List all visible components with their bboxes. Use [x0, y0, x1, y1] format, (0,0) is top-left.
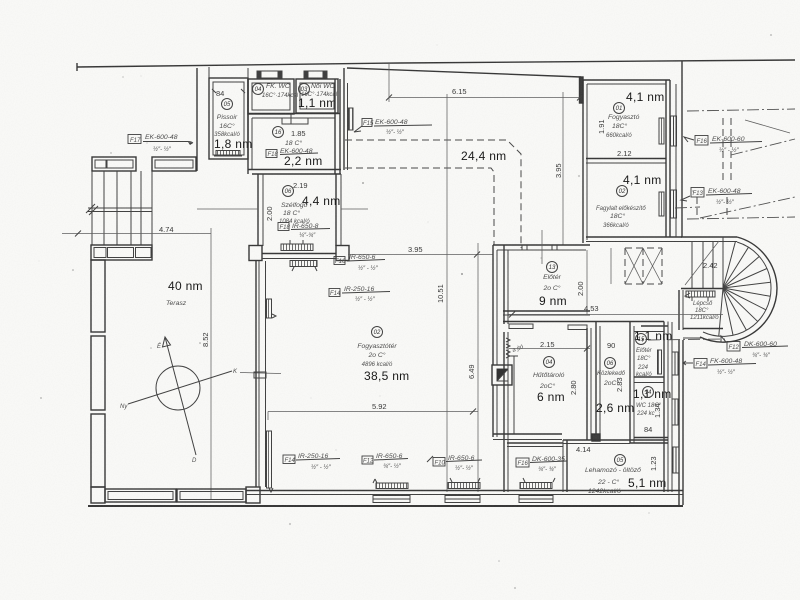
dimension 1.23 vertical	[649, 456, 658, 471]
dimension 2.12	[617, 149, 632, 158]
wall: Fogyasztoter east wall	[493, 245, 508, 492]
room label Kozlekedo	[597, 371, 626, 387]
room label 1,1 nm upper	[634, 329, 673, 343]
window south 1	[373, 496, 410, 503]
wall: left facade wall of upper building	[196, 68, 198, 171]
symbol: room number circle 06	[283, 186, 294, 197]
label F14 IR-250-16 mid	[329, 286, 390, 303]
dimension 1.34 vertical	[653, 403, 662, 418]
window south 3	[519, 496, 553, 503]
utility dashed risers upper	[723, 118, 795, 180]
wall: east facade wall	[676, 61, 682, 237]
wall: east wall lower part	[664, 322, 683, 506]
dimension 10.51 vertical	[436, 94, 447, 492]
dimension 4.14	[576, 445, 591, 454]
radiator on west wall lower	[267, 431, 274, 492]
room label 4,1 nm upper	[626, 90, 665, 104]
window east wall 4,1 lower	[671, 190, 677, 218]
wall: Eloter top wall	[493, 245, 590, 250]
window east wall 2	[672, 399, 678, 425]
radiator in 1,1 upper	[658, 350, 662, 374]
dimension 8.52 vertical	[201, 332, 210, 347]
window south 2	[445, 496, 480, 503]
symbol: room number circle 04	[253, 84, 264, 95]
room label Eloter small	[636, 348, 653, 378]
wire: secondary boundary line (wedge) above main building	[347, 68, 581, 77]
dimension 1.91 vertical	[597, 119, 606, 134]
room label Fogyasztoter	[357, 343, 397, 368]
label F18 EK-600-48 in corridor	[266, 148, 318, 158]
dimension 3.95 horizontal	[348, 245, 493, 258]
utility dash-dot line lower	[675, 197, 795, 219]
symbol: room number circle 06 Kozlekedo	[605, 358, 616, 369]
dimension 2.00 vertical Szelfogo	[197, 206, 368, 221]
dimension 90	[607, 341, 615, 350]
wall: stair-to-east-wall joint	[683, 337, 701, 339]
room label Pissoir 84 dim	[212, 89, 245, 98]
room label 4,1 nm lower	[623, 173, 662, 187]
room label oltozo	[585, 467, 641, 495]
radiator Lepcso	[685, 291, 715, 301]
symbol: room number circle 13	[542, 230, 558, 273]
label F16 IR-650-6 mid	[334, 254, 385, 272]
wall: 1,1 rooms walls	[630, 322, 668, 493]
radiator south 3	[520, 478, 555, 489]
dimension 6.15	[386, 64, 583, 245]
node: boundary wall stub	[580, 77, 584, 103]
radiator south 2	[448, 478, 480, 489]
wall: pillar right of Fogyasztoter entry	[336, 246, 349, 261]
utility dash-dot line upper	[687, 109, 795, 111]
door swing marks at Fogyasztoter door	[506, 338, 525, 358]
dimension 2.15	[509, 340, 590, 352]
dimension 2.19	[293, 181, 308, 190]
room label 1,8 nm	[214, 137, 253, 151]
dimension 84 small	[644, 425, 652, 434]
wall: Szelfogo room walls	[258, 174, 341, 246]
wall: corridor strip top wall	[503, 321, 664, 323]
room label 9 nm	[539, 294, 567, 308]
wall: FK WC room outline	[248, 79, 294, 114]
dimension 2.80 vertical	[569, 380, 578, 395]
room label Szelfogo	[279, 202, 310, 225]
window east wall 4,1 upper	[671, 116, 677, 146]
radiator south 1	[373, 479, 408, 489]
window east wall 3	[673, 447, 679, 473]
room label 2,6 nm	[596, 401, 635, 415]
room label Noi WC	[301, 83, 338, 98]
label F13 EK-600-48	[681, 188, 752, 207]
dimension 2.42	[703, 261, 718, 270]
symbol: room number circle 05	[222, 99, 233, 110]
dimension 1.85	[291, 129, 306, 138]
room label 6 nm	[537, 390, 565, 404]
door sill corridor strip east	[568, 325, 587, 330]
room label Eloter	[542, 274, 561, 292]
dimension 5.92	[268, 402, 478, 420]
label F14 FK-600-48	[683, 358, 756, 376]
label F15 EK-600-48	[354, 119, 432, 137]
wall: top wall of Fogyasztoter west part	[262, 254, 336, 259]
wall: Lepcso room walls	[641, 289, 723, 331]
dashed shaft with X bracing	[611, 248, 662, 284]
wall: Fogyasztoter west wall	[254, 261, 266, 487]
wall: spiral stair outer curved wall	[700, 237, 777, 342]
wall: Pissoir room outline	[209, 67, 248, 159]
dimension 2.83 vertical	[615, 377, 624, 392]
room label 1,1 nm lower	[633, 387, 672, 401]
label F17 EK-600-48 with leader arrow	[128, 134, 193, 153]
compass rose	[120, 337, 281, 464]
symbol: room number circle 03	[299, 84, 310, 95]
wall: terrace west wall pillars	[91, 260, 105, 487]
room label 38,5 nm	[364, 369, 409, 383]
wall: Noi WC room outline	[296, 79, 338, 113]
label F16 EK-600-60	[684, 136, 762, 155]
wall: edge right of sanitary block	[344, 68, 348, 170]
radiator on west wall upper	[267, 299, 277, 318]
label F10 IR-650-6 bottom middle	[427, 455, 482, 472]
wall: Eloter bottom wall	[503, 311, 590, 315]
symbol: room number circle 14	[643, 387, 654, 398]
dimension 4.74 with ticks	[62, 225, 211, 500]
wall: stair hall north wall	[681, 237, 737, 242]
room label Lepcso	[690, 301, 719, 321]
room label Fagylalt elokeszito	[596, 206, 646, 229]
radiator vertical on edge wall	[349, 108, 354, 130]
symbol: room number circle 04 Hutotarolo	[544, 357, 555, 368]
radiator at Szelfogo south wall	[281, 240, 313, 251]
door sill corridor top	[282, 113, 308, 124]
dimension 6.49 vertical	[467, 243, 478, 492]
label F18 IR-650-8	[278, 223, 330, 240]
window east wall 1	[672, 352, 678, 375]
label F14 IR-250-16 bottom	[283, 453, 340, 471]
symbol: room number circle 02 Fogyasztoter	[372, 327, 383, 338]
chimney symbol	[492, 365, 512, 385]
room label 40 nm	[166, 279, 203, 307]
symbol: room number circle 16	[273, 127, 284, 138]
radiator room 4,1 lower	[659, 192, 664, 216]
door sill corridor strip west	[509, 324, 533, 329]
radiator room 4,1 upper	[659, 118, 664, 144]
wall: terrace south wall	[91, 487, 260, 503]
room label WC small	[636, 403, 662, 417]
radiator in Pissoir	[214, 151, 242, 157]
room label 2,2 nm	[284, 154, 323, 168]
symbol: room number circle 15	[636, 334, 647, 345]
wire: property boundary line along top	[77, 60, 795, 71]
room label 1,1 nm (Noi WC)	[298, 96, 337, 110]
spiral stair treads fan	[719, 242, 771, 336]
symbol: room number circle 05 oltozo	[615, 455, 626, 466]
dimension 4.53	[508, 304, 723, 318]
dimension 2.00 vertical Eloter	[576, 250, 587, 314]
window: top wall window right	[304, 71, 327, 78]
wall: Hutotarolo walls	[493, 322, 600, 441]
room label 5,1 nm	[628, 476, 667, 490]
dashed outline: open terrace 24,4 nm upper	[345, 140, 521, 248]
wall: corridor 2,2 nm outline	[248, 79, 341, 174]
wall: upper terrace parapet with planter boxes	[92, 157, 196, 171]
wall: pillar left of Fogyasztoter entry	[249, 246, 262, 261]
room label 24,4 nm	[461, 149, 506, 163]
radiator Fogyasztoter top wall	[290, 261, 317, 272]
label F16 DK-600-35 bottom	[516, 456, 567, 473]
dimension 3.95 vertical	[554, 163, 563, 178]
room label Pissoir texts	[214, 114, 240, 138]
room label 4,4 nm	[302, 194, 341, 208]
dark corner Hutotarolo SE	[592, 434, 600, 441]
label F12 DK-600-60	[648, 336, 788, 359]
wall: south facade wall	[88, 491, 683, 507]
room label corridor 18C	[285, 139, 302, 147]
symbol: room number circle 02 fagylalt	[617, 186, 628, 197]
symbol: room number circle 01	[614, 103, 625, 114]
room label Fogyaszto	[606, 114, 640, 139]
exterior stair treads (left)	[86, 171, 152, 245]
window: top wall window left	[257, 71, 282, 78]
wall: Oltozo top wall	[507, 440, 668, 492]
stair landing boxes	[91, 245, 152, 260]
wall: room 4,1 upper outline	[583, 80, 682, 243]
label F12 IR-650-6 bottom	[362, 453, 408, 470]
room label FK WC	[262, 83, 299, 99]
dashed outline: open terrace 24,4 nm lower	[345, 168, 494, 245]
room label Hutotarolo	[533, 372, 565, 390]
spiral stair straight treads	[685, 237, 723, 288]
